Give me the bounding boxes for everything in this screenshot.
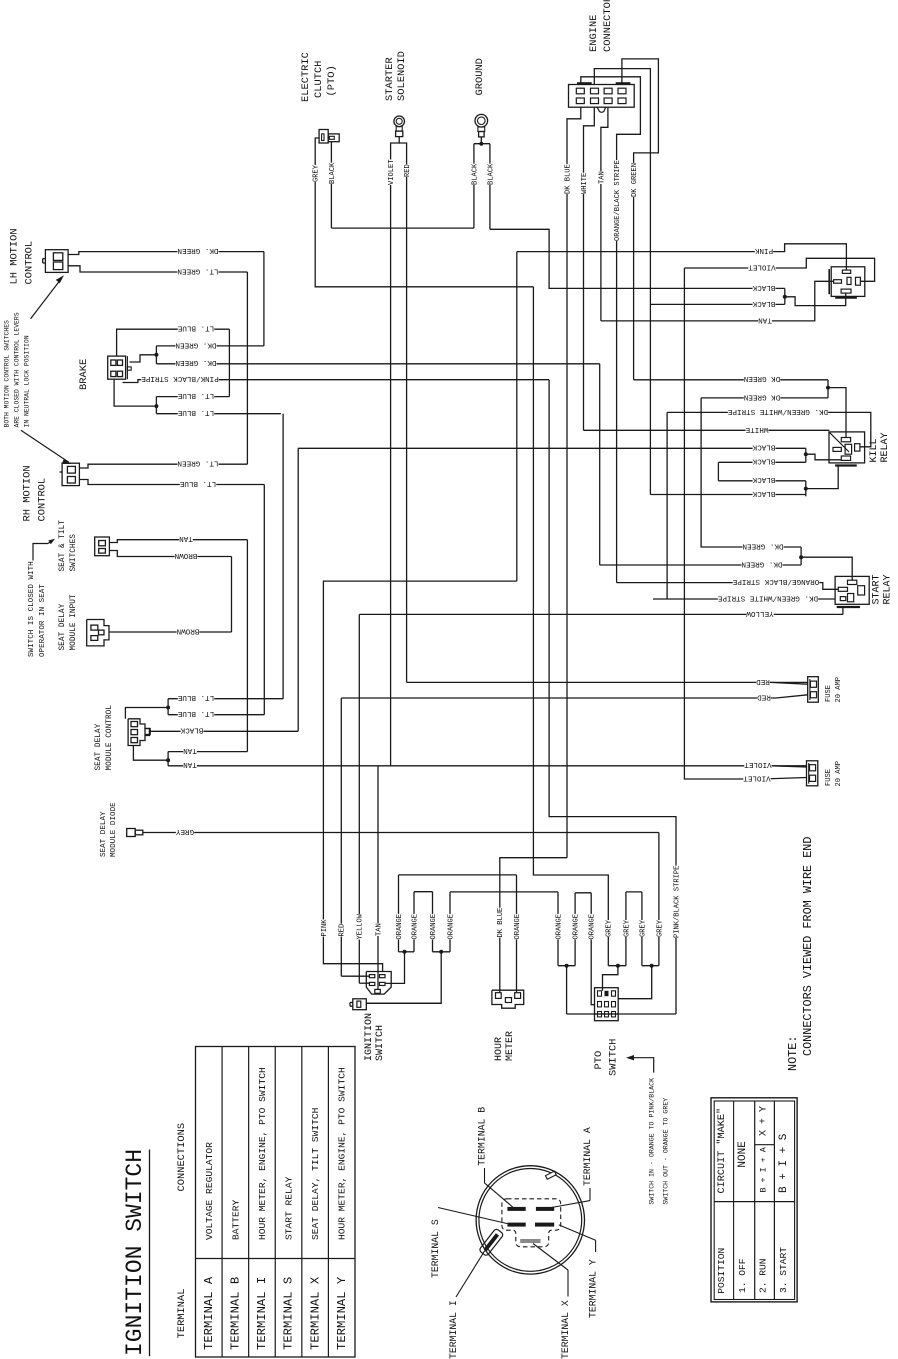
svg-text:BLACK: BLACK [752,283,775,291]
svg-text:TERMINAL I: TERMINAL I [255,1277,269,1350]
label START RELAY [872,574,894,604]
svg-text:POSITION: POSITION [716,1248,727,1294]
wire RED to ignition [341,975,369,977]
svg-text:ORANGE: ORANGE [573,914,581,940]
svg-text:BLACK: BLACK [752,443,775,451]
wire fuse2 VIOLET 2 [684,773,806,783]
svg-text:TERMINAL B: TERMINAL B [477,1107,488,1166]
svg-text:RED: RED [757,692,771,700]
svg-text:SEAT DELAY: SEAT DELAY [95,723,103,770]
hour meter connector [492,990,524,1008]
junction seat delay lt blue [125,699,170,719]
wire kill DK GREEN 1 [744,374,846,437]
wire engine DK GREEN [622,59,828,380]
svg-text:NONE: NONE [737,1141,749,1168]
svg-text:SEAT & TILT: SEAT & TILT [59,520,67,572]
svg-text:IGNITION: IGNITION [364,1013,375,1061]
arrow seat note [33,539,55,561]
svg-text:CONTROL: CONTROL [37,478,49,522]
wire brake LT. BLUE 2 [156,329,229,401]
svg-text:BLACK: BLACK [752,299,775,307]
svg-text:ORANGE: ORANGE [411,914,419,940]
wire clutch BLACK [327,142,336,228]
svg-text:ELECTRIC: ELECTRIC [300,52,312,102]
svg-text:VOLTAGE REGULATOR: VOLTAGE REGULATOR [204,1142,215,1240]
svg-text:BLACK: BLACK [752,475,775,483]
wire harness BLACK 1 [752,283,846,306]
svg-text:START RELAY: START RELAY [284,1176,295,1240]
ignition key diode connector [350,999,366,1010]
svg-text:B + I + S: B + I + S [778,1133,790,1193]
wire clutch GREY [311,138,533,287]
svg-text:FUSE: FUSE [825,769,833,786]
seat delay module input connector [87,620,109,646]
svg-text:TAN: TAN [183,746,197,754]
svg-text:HOUR METER, ENGINE, PTO SWITCH: HOUR METER, ENGINE, PTO SWITCH [257,1067,268,1240]
label STARTER SOLENOID [384,51,408,101]
svg-text:TERMINAL X: TERMINAL X [308,1276,322,1350]
svg-text:SOLENOID: SOLENOID [396,51,408,101]
wire harness BLACK 2 [753,300,776,308]
svg-text:ORANGE: ORANGE [514,914,522,940]
svg-text:SEAT DELAY: SEAT DELAY [59,603,67,650]
svg-text:20 AMP: 20 AMP [835,677,843,703]
svg-text:VIOLET: VIOLET [743,773,771,781]
wire seat TAN [109,534,247,751]
svg-text:BLACK: BLACK [329,162,337,184]
junction brake dk green pair [130,346,159,364]
svg-text:LH MOTION: LH MOTION [9,228,21,284]
note connectors viewed from wire end [786,837,815,1071]
seat delay module diode connector [127,829,143,837]
svg-text:IGNITION SWITCH: IGNITION SWITCH [122,1149,148,1356]
svg-text:LT. GREEN: LT. GREEN [177,266,218,274]
svg-text:ENGINE: ENGINE [588,15,600,52]
svg-text:DK. GREEN: DK. GREEN [177,246,218,254]
svg-text:VIOLET: VIOLET [748,262,776,270]
svg-text:SEAT DELAY: SEAT DELAY [100,811,108,857]
wire kill BLACK 4 [752,466,838,499]
svg-text:TAN: TAN [598,171,606,184]
wire kill BLACK 1 [298,443,806,453]
svg-text:NOTE:: NOTE: [786,1036,800,1071]
svg-text:BOTH MOTION CONTROL SWITCHES: BOTH MOTION CONTROL SWITCHES [4,320,11,428]
label KILL RELAY [869,432,891,462]
svg-text:PINK: PINK [754,246,773,254]
wire ORANGE 4 [446,892,558,952]
svg-text:STARTER: STARTER [384,57,396,101]
wire ORANGE 6 [554,892,563,966]
note SWITCH IS CLOSED WITH OPERATOR IN SEAT [28,561,47,657]
wire ORANGE 5 hour meter [513,875,522,992]
label PTO SWITCH [593,1039,620,1076]
wire brake LT. BLUE 1 [117,324,230,356]
svg-text:IN NEUTRAL LOCK POSITION: IN NEUTRAL LOCK POSITION [24,335,31,427]
svg-text:CONNECTORS VIEWED FROM WIRE EN: CONNECTORS VIEWED FROM WIRE END [801,837,815,1056]
terminal bar B [507,1207,525,1211]
label SEAT DELAY MODULE INPUT [59,594,78,650]
svg-text:SWITCH: SWITCH [608,1039,620,1076]
wire seat delay TAN 2 [168,760,806,770]
svg-text:RH MOTION: RH MOTION [22,465,34,521]
svg-text:PINK: PINK [321,919,329,937]
svg-text:HOUR METER, ENGINE, PTO SWITCH: HOUR METER, ENGINE, PTO SWITCH [337,1067,348,1240]
junction brake lt blue pair [114,379,158,414]
svg-text:BLACK: BLACK [471,163,479,185]
wire seat delay diode GREY [143,827,659,966]
svg-text:DK GREEN: DK GREEN [744,392,780,400]
svg-text:SEAT DELAY, TILT SWITCH: SEAT DELAY, TILT SWITCH [310,1108,321,1240]
svg-text:HOUR: HOUR [494,1037,505,1061]
svg-text:TERMINAL A: TERMINAL A [202,1276,216,1350]
label HOUR METER [494,1031,516,1061]
svg-text:TERMINAL A: TERMINAL A [582,1127,593,1186]
svg-text:BATTERY: BATTERY [230,1199,241,1240]
svg-text:ORANGE: ORANGE [396,914,404,940]
svg-text:TERMINAL X: TERMINAL X [560,1300,571,1359]
starter solenoid ring terminal [394,116,405,137]
label IGNITION SWITCH [364,1013,386,1061]
wire brake LT. BLUE 3 [156,408,281,418]
svg-text:20 AMP: 20 AMP [835,761,843,787]
ignition switch circle [476,1166,584,1274]
wire brake DK. GREEN 2 [156,358,599,368]
svg-text:(PTO): (PTO) [326,65,338,96]
LH motion control connector [43,250,68,273]
wire harness PINK [517,244,847,581]
svg-text:CIRCUIT "MAKE": CIRCUIT "MAKE" [716,1108,728,1194]
harness connector [829,267,865,298]
label TERMINAL S [430,1208,507,1279]
svg-text:LT. BLUE: LT. BLUE [179,479,216,487]
svg-text:ORANGE: ORANGE [555,914,563,940]
junction grey 1-2 [603,964,626,991]
wire RH LT. GREEN [79,459,247,469]
wire ORANGE 3 [414,892,438,952]
wire start DK. GREEN/WHITE STRIPE [653,593,835,603]
svg-text:TAN: TAN [183,760,197,768]
wire GREY 1 [533,287,613,966]
svg-text:DK. GREEN: DK. GREEN [742,541,783,549]
svg-text:ORANGE: ORANGE [447,914,455,940]
junction orange 6-7 [558,964,575,1014]
svg-text:DK. GREEN: DK. GREEN [175,340,216,348]
label TERMINAL X [533,1244,571,1359]
svg-text:RELAY: RELAY [880,432,891,462]
svg-text:X + Y: X + Y [759,1106,770,1136]
table row TERMINAL Y [335,1067,349,1350]
label SEAT DELAY MODULE DIODE [100,802,118,857]
wire ORANGE 8 [587,893,596,1005]
svg-text:BROWN: BROWN [177,626,200,634]
wire GREY 3 [626,892,647,966]
svg-text:RELAY: RELAY [883,574,894,604]
svg-text:YELLOW: YELLOW [746,609,774,617]
svg-text:PTO: PTO [593,1051,605,1070]
wire PINK/BLACK STRIPE bundle [549,380,681,1014]
ground ring terminal [475,114,488,137]
pto connector [595,988,619,1021]
wire starter VIOLET [387,137,400,766]
wire RED bundle label [337,924,345,937]
wire start ORANGE/BLACK STRIPE [617,577,839,589]
note SWITCH IN/OUT [649,1078,670,1205]
wire GREY 4 [655,920,663,937]
wire seat delay LT. BLUE 1 [168,414,283,703]
table row TERMINAL B [229,1199,243,1350]
svg-text:DK. GREEN: DK. GREEN [741,559,782,567]
label TERMINAL I [448,1244,489,1359]
wire ground BLACK 2 [486,144,785,289]
svg-text:GREY: GREY [623,919,631,937]
label FUSE 20 AMP 2 [825,761,843,787]
svg-text:GROUND: GROUND [474,58,486,95]
wire TAN bundle [374,766,383,990]
svg-text:RED: RED [756,677,770,685]
svg-text:PINK/BLACK STRIPE: PINK/BLACK STRIPE [141,374,219,382]
svg-text:BLACK: BLACK [752,457,775,465]
wire kill BLACK 2 [718,448,841,466]
label TERMINAL Y [559,1225,599,1318]
position table border [711,1098,797,1302]
svg-text:CLUTCH: CLUTCH [313,61,325,98]
svg-text:DK BLUE: DK BLUE [497,908,505,938]
wire brake DK. GREEN 1 [156,340,264,350]
table row TERMINAL X [308,1108,322,1350]
wire kill BLACK 3 [718,462,805,485]
label SEAT DELAY MODULE CONTROL [95,705,114,771]
terminal slot I [479,1228,504,1256]
label SEAT & TILT SWITCHES [59,520,78,572]
fuse 2 body [807,761,818,786]
seat and tilt switches connector [95,537,110,556]
svg-text:BRAKE: BRAKE [78,359,90,390]
svg-text:VIOLET: VIOLET [744,760,772,768]
wire start DK. GREEN 1 [701,541,853,580]
svg-text:MODULE DIODE: MODULE DIODE [110,802,118,857]
svg-text:BROWN: BROWN [175,551,198,559]
svg-text:YELLOW: YELLOW [357,913,365,939]
terminal bar S [507,1223,525,1227]
svg-text:DK BLUE: DK BLUE [564,164,572,194]
wire engine WHITE [580,107,829,430]
svg-text:DK GREEN: DK GREEN [744,374,780,382]
wire kill DK GREEN 2 [701,392,828,547]
svg-text:1. OFF: 1. OFF [737,1258,748,1293]
wire ORANGE 7 [571,893,591,966]
svg-text:MODULE INPUT: MODULE INPUT [70,594,78,650]
svg-text:CONTROL: CONTROL [24,241,36,285]
svg-text:SWITCH OUT - ORANGE TO GREY: SWITCH OUT - ORANGE TO GREY [662,1098,669,1205]
wire engine ORANGE/BLACK STRIPE [581,77,641,583]
wire kill WHITE [584,425,830,435]
svg-text:SWITCH IS CLOSED WITH: SWITCH IS CLOSED WITH [28,561,36,657]
wire seat delay TAN 1 [168,746,247,756]
svg-text:LT. BLUE: LT. BLUE [177,391,214,399]
svg-text:BLACK: BLACK [180,726,203,734]
svg-text:VIOLET: VIOLET [388,159,396,185]
wire fuse2 VIOLET 1 [744,760,807,770]
svg-text:SWITCH IN - ORANGE TO PINK/BLA: SWITCH IN - ORANGE TO PINK/BLACK [649,1078,656,1205]
svg-text:ORANGE: ORANGE [589,914,597,940]
svg-text:MODULE CONTROL: MODULE CONTROL [106,705,114,771]
svg-text:TERMINAL I: TERMINAL I [448,1300,459,1359]
seat delay module control connector [128,719,150,746]
wire ORANGE 1 [395,875,404,952]
wire engine DK BLUE [500,107,581,992]
wire start YELLOW [359,607,843,983]
svg-text:2. RUN: 2. RUN [758,1258,769,1293]
svg-text:METER: METER [505,1031,516,1061]
wire DK BLUE bundle [496,908,504,938]
wire seat delay LT. BLUE 2 [168,709,264,719]
svg-text:PINK/BLACK STRIPE: PINK/BLACK STRIPE [673,866,681,938]
terminal bar A [536,1207,554,1211]
wire seat BROWN [109,551,231,633]
wire pto bottom row [595,1013,619,1015]
table row TERMINAL S [282,1176,296,1350]
ignition switch connector [366,972,391,995]
svg-text:3. START: 3. START [778,1247,789,1293]
brake connector [108,356,132,379]
wire black ground bus [331,227,474,229]
svg-text:SWITCHES: SWITCHES [70,534,78,572]
wire ground BLACK 1 [470,137,490,228]
svg-text:TERMINAL Y: TERMINAL Y [335,1276,349,1350]
svg-text:LT. BLUE: LT. BLUE [177,709,214,717]
note BOTH MOTION CONTROL SWITCHES [4,312,31,427]
svg-text:ARE CLOSED WITH CONTROL LEVERS: ARE CLOSED WITH CONTROL LEVERS [14,312,21,427]
svg-text:GREY: GREY [656,919,664,937]
svg-text:TAN: TAN [179,534,193,542]
svg-text:DK GREEN: DK GREEN [631,163,639,197]
dashed switch outline [502,1199,561,1247]
svg-text:DK. GREEN: DK. GREEN [175,358,216,366]
svg-text:TAN: TAN [758,315,772,323]
fuse 1 body [808,677,819,703]
wire ORANGE1 to hour meter link [399,874,517,876]
label FUSE 20 AMP 1 [825,677,843,703]
label LH MOTION CONTROL [9,228,36,284]
svg-text:LT. GREEN: LT. GREEN [177,459,218,467]
svg-text:DK. GREEN/WHITE STRIPE: DK. GREEN/WHITE STRIPE [717,593,818,601]
wire harness TAN [758,315,772,325]
label RH MOTION CONTROL [22,465,49,521]
table row TERMINAL A [202,1142,216,1350]
junction orange 1-2 [385,950,414,984]
arrow to RH connector [21,430,72,464]
svg-text:LT. BLUE: LT. BLUE [177,324,214,332]
svg-text:ORANGE/BLACK STRIPE: ORANGE/BLACK STRIPE [614,160,622,241]
svg-text:ORANGE: ORANGE [430,914,438,940]
svg-text:TERMINAL S: TERMINAL S [430,1219,441,1278]
svg-text:SWITCH: SWITCH [375,1025,386,1061]
svg-text:LT. BLUE: LT. BLUE [177,693,214,701]
engine connector [569,83,635,112]
svg-text:BLACK: BLACK [487,163,495,185]
wire ORANGE 2 [410,892,419,952]
wire PINK bundle [319,581,516,971]
svg-text:GREY: GREY [606,919,614,937]
svg-text:GREY: GREY [313,164,321,182]
svg-text:TERMINAL B: TERMINAL B [229,1277,243,1350]
svg-text:RED: RED [339,924,347,937]
svg-text:WHITE: WHITE [581,173,589,194]
label ELECTRIC CLUTCH (PTO) [300,52,338,102]
wire RH LT. BLUE [79,479,264,715]
arrow to LH connector [31,275,64,319]
wire LH LT. GREEN [68,266,247,464]
svg-text:FUSE: FUSE [825,685,833,702]
kill relay body [829,432,865,466]
wire LH DK. GREEN [68,246,264,346]
wire key diode [366,1002,441,1004]
svg-text:TERMINAL S: TERMINAL S [282,1277,296,1350]
label TERMINAL B [477,1107,514,1208]
svg-text:WHITE: WHITE [745,425,768,433]
svg-text:B + I + A: B + I + A [759,1146,769,1192]
electric clutch connector [319,130,339,144]
svg-text:TAN: TAN [375,923,383,936]
svg-text:LT. BLUE: LT. BLUE [177,408,214,416]
terminal bar X [520,1239,540,1243]
junction orange 3-4 [367,950,450,1004]
wire GREY 2 [622,892,631,966]
wire brake PINK/BLACK STRIPE [123,374,550,384]
junction grey 3-4 [618,964,659,999]
table row TERMINAL I [255,1067,269,1350]
svg-text:BLACK: BLACK [752,489,775,497]
svg-text:RED: RED [404,164,412,177]
wire start DK. GREEN 2 [600,364,801,569]
wire fuse1 RED 2 [341,692,807,976]
svg-text:ORANGE/BLACK STRIPE: ORANGE/BLACK STRIPE [732,577,819,585]
wire YELLOW bundle [355,913,369,983]
wire engine TAN [597,107,834,321]
wire fuse1 RED 1 [756,677,808,687]
svg-text:GREY: GREY [175,827,194,835]
arrow pto switch [626,1055,654,1073]
label TERMINAL A [549,1127,593,1208]
ignition switch table title [122,1149,150,1356]
wire harness VIOLET [684,258,874,774]
RH motion control connector [59,463,79,485]
svg-text:TERMINAL Y: TERMINAL Y [588,1259,599,1318]
junction seat delay tan [133,746,170,766]
wire seat delay input BROWN [109,626,232,636]
svg-text:CONNECTIONS: CONNECTIONS [176,1123,188,1192]
wire kill DK. GREEN/WHITE STRIPE [667,407,871,599]
start relay body [835,576,869,607]
label ENGINE CONNECTOR [588,0,614,52]
ignition table grid [196,1047,356,1358]
wire starter RED [399,143,808,682]
svg-text:START: START [872,574,883,604]
svg-text:DK. GREEN/WHITE STRIPE: DK. GREEN/WHITE STRIPE [727,407,828,415]
svg-text:TERMINAL: TERMINAL [176,1289,188,1339]
svg-text:CONNECTOR: CONNECTOR [602,0,614,52]
wire seat delay BLACK [149,448,298,735]
wire engine BLACK loop [594,69,806,495]
terminal bar Y [535,1223,554,1227]
svg-text:GREY: GREY [639,919,647,937]
svg-text:OPERATOR IN SEAT: OPERATOR IN SEAT [39,584,47,657]
